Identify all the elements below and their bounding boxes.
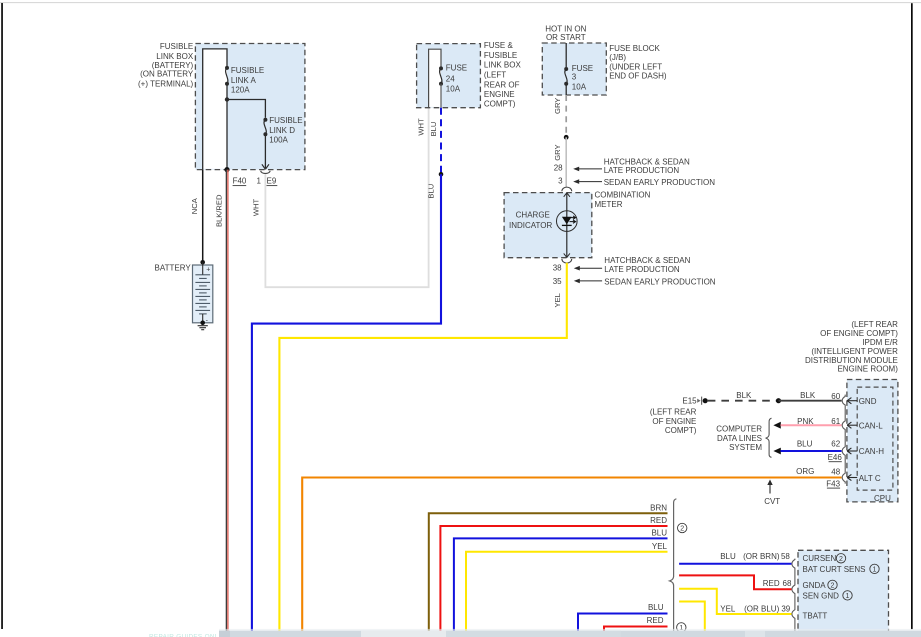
svg-text:62: 62 xyxy=(831,439,840,448)
svg-text:28: 28 xyxy=(554,164,563,173)
CVT arrow xyxy=(769,483,771,494)
svg-text:F40: F40 xyxy=(233,177,247,186)
wire YEL tbatt xyxy=(679,589,791,614)
fuse and fusible link box body xyxy=(417,44,481,108)
svg-text:BLK/RED: BLK/RED xyxy=(215,194,224,227)
wire BLU lower xyxy=(578,614,668,632)
brace bundle group xyxy=(670,499,677,631)
svg-text:(OR BLU): (OR BLU) xyxy=(744,605,779,614)
svg-text:ENGINE ROOM): ENGINE ROOM) xyxy=(837,365,898,374)
svg-text:(+) TERMINAL): (+) TERMINAL) xyxy=(138,80,194,89)
node battery + xyxy=(200,260,205,265)
svg-text:61: 61 xyxy=(831,417,840,426)
svg-text:CAN-H: CAN-H xyxy=(859,447,885,456)
svg-text:2: 2 xyxy=(831,583,835,590)
svg-text:IPDM E/R: IPDM E/R xyxy=(862,338,898,347)
svg-text:68: 68 xyxy=(783,579,792,588)
svg-text:LINK BOX: LINK BOX xyxy=(484,60,522,69)
svg-text:35: 35 xyxy=(553,277,562,286)
svg-text:FUSIBLE: FUSIBLE xyxy=(160,42,193,51)
svg-text:BLU: BLU xyxy=(797,439,813,448)
svg-text:24: 24 xyxy=(446,74,455,83)
svg-text:LINK BOX: LINK BOX xyxy=(156,52,194,61)
svg-text:YEL: YEL xyxy=(553,293,562,307)
svg-text:BATTERY: BATTERY xyxy=(155,264,192,273)
page top border xyxy=(0,2,921,4)
wire into fuse 3 xyxy=(565,43,567,67)
svg-text:LINK A: LINK A xyxy=(231,76,257,85)
svg-text:(BATTERY): (BATTERY) xyxy=(152,61,194,70)
node junction xyxy=(776,398,781,403)
hatchback arrow 1 xyxy=(573,167,579,172)
fusible link box body xyxy=(195,44,305,170)
node junction on link A leg xyxy=(225,97,229,101)
wire YEL xyxy=(466,552,668,631)
wire ORG xyxy=(302,478,841,632)
sedan arrow 2 xyxy=(574,279,580,284)
svg-text:YEL: YEL xyxy=(720,605,736,614)
wire BLK solid xyxy=(779,400,842,402)
svg-text:SEN GND: SEN GND xyxy=(803,592,840,601)
svg-text:E15: E15 xyxy=(682,396,697,405)
svg-text:FUSE: FUSE xyxy=(446,64,467,73)
svg-text:ORG: ORG xyxy=(796,467,814,476)
wire NCA xyxy=(202,170,204,263)
svg-text:LATE PRODUCTION: LATE PRODUCTION xyxy=(604,265,680,274)
svg-text:SYSTEM: SYSTEM xyxy=(729,443,762,452)
svg-text:+: + xyxy=(206,267,210,274)
svg-text:(LEFT REAR: (LEFT REAR xyxy=(650,408,697,417)
bottom gray bar xyxy=(219,629,921,631)
ipdm body xyxy=(847,380,898,502)
svg-text:60: 60 xyxy=(831,392,840,401)
svg-text:E9: E9 xyxy=(267,177,277,186)
svg-text:FUSE BLOCK: FUSE BLOCK xyxy=(609,44,660,53)
node E15 dot xyxy=(703,398,708,403)
pin 60 GND arrow xyxy=(847,400,857,402)
svg-text:BLK: BLK xyxy=(736,391,752,400)
wire WHT xyxy=(265,108,428,288)
charge indicator lamp wire xyxy=(566,193,568,258)
wire RED xyxy=(440,526,667,631)
wire GRY solid xyxy=(565,137,567,187)
svg-text:GNDA: GNDA xyxy=(803,581,827,590)
svg-text:39: 39 xyxy=(781,605,790,614)
svg-text:GRY: GRY xyxy=(553,98,562,114)
svg-text:(OR BRN): (OR BRN) xyxy=(743,552,780,561)
svg-text:FUSE &: FUSE & xyxy=(484,41,514,50)
svg-text:ENGINE: ENGINE xyxy=(484,90,515,99)
arrow into E9 xyxy=(262,164,269,169)
svg-text:58: 58 xyxy=(781,552,790,561)
svg-text:COMPT): COMPT) xyxy=(665,426,697,435)
svg-text:SEDAN EARLY PRODUCTION: SEDAN EARLY PRODUCTION xyxy=(604,277,716,286)
svg-text:CAN-L: CAN-L xyxy=(859,422,884,431)
wire BLU dashed xyxy=(440,108,442,174)
svg-text:REPAIR GUIDES ONLINE: REPAIR GUIDES ONLINE xyxy=(149,633,230,637)
svg-text:(LEFT: (LEFT xyxy=(484,70,506,79)
svg-text:FUSIBLE: FUSIBLE xyxy=(269,116,302,125)
svg-text:2: 2 xyxy=(839,556,843,563)
pin 62 CAN-H arrow xyxy=(847,450,857,452)
charge indicator LED xyxy=(557,211,578,232)
hatchback arrow 2 xyxy=(574,266,580,271)
wire RED gnda xyxy=(679,575,791,589)
svg-text:CVT: CVT xyxy=(764,497,780,506)
node on GRY wire xyxy=(564,135,569,140)
pin 61 CAN-L arrow xyxy=(847,424,857,426)
wire loop in fusible link box xyxy=(203,49,227,170)
svg-text:BLK: BLK xyxy=(800,391,816,400)
svg-text:38: 38 xyxy=(553,263,562,272)
svg-text:120A: 120A xyxy=(231,86,250,95)
svg-text:INDICATOR: INDICATOR xyxy=(509,221,552,230)
combination meter body xyxy=(504,193,592,258)
wire BLK dashed xyxy=(708,400,779,402)
svg-text:FUSIBLE: FUSIBLE xyxy=(484,51,517,60)
svg-text:LINK D: LINK D xyxy=(269,126,295,135)
page right border xyxy=(911,3,913,629)
svg-text:BRN: BRN xyxy=(650,503,667,512)
svg-text:F43: F43 xyxy=(826,479,840,488)
circled 1 bottom xyxy=(677,623,686,632)
svg-text:2: 2 xyxy=(680,526,684,533)
svg-text:10A: 10A xyxy=(572,82,587,91)
svg-text:OF ENGINE COMPT): OF ENGINE COMPT) xyxy=(820,329,898,338)
sensor pin cusp line xyxy=(792,559,795,637)
arrow PNK xyxy=(773,422,780,429)
svg-text:PNK: PNK xyxy=(797,417,814,426)
svg-text:SEDAN EARLY PRODUCTION: SEDAN EARLY PRODUCTION xyxy=(604,178,716,187)
svg-text:DISTRIBUTION MODULE: DISTRIBUTION MODULE xyxy=(805,356,898,365)
svg-text:1: 1 xyxy=(873,567,877,574)
connector arc bottom xyxy=(562,259,572,263)
wire GRY dashed xyxy=(565,95,567,137)
wire to fusible link D xyxy=(227,100,265,118)
wire BLU can-h xyxy=(781,450,842,452)
svg-text:(INTELLIGENT POWER: (INTELLIGENT POWER xyxy=(811,347,898,356)
node on BLU wire xyxy=(439,172,444,177)
svg-text:COMPUTER: COMPUTER xyxy=(716,424,762,433)
page left border xyxy=(1,3,3,629)
sedan arrow 1 xyxy=(573,179,579,184)
svg-text:BLU: BLU xyxy=(429,122,438,137)
wire PNK xyxy=(781,424,842,426)
node F40 junction dot xyxy=(224,167,229,172)
svg-text:HATCHBACK & SEDAN: HATCHBACK & SEDAN xyxy=(604,256,690,265)
svg-text:E46: E46 xyxy=(828,453,843,462)
svg-text:CURSEN: CURSEN xyxy=(803,554,837,563)
svg-text:NCA: NCA xyxy=(190,197,199,214)
connector arc E9 xyxy=(261,171,271,174)
svg-text:1: 1 xyxy=(256,177,261,186)
E15 connector symbol xyxy=(697,399,700,403)
fuse 24 xyxy=(439,66,443,70)
svg-text:RED: RED xyxy=(647,616,664,625)
svg-text:1: 1 xyxy=(846,593,850,600)
svg-text:GND: GND xyxy=(859,397,877,406)
svg-text:3: 3 xyxy=(572,73,577,82)
svg-text:FUSIBLE: FUSIBLE xyxy=(231,66,264,75)
wire BLU solid xyxy=(252,174,441,631)
wire RED lower xyxy=(604,627,668,632)
svg-text:BLU: BLU xyxy=(426,184,435,199)
circled 2 xyxy=(678,523,687,532)
svg-text:REAR OF: REAR OF xyxy=(484,80,520,89)
svg-text:(J/B): (J/B) xyxy=(609,53,626,62)
connector arc top xyxy=(562,187,572,191)
svg-text:YEL: YEL xyxy=(652,542,668,551)
cpu inner box xyxy=(857,387,893,490)
svg-text:GRY: GRY xyxy=(553,144,562,160)
brace computer data lines xyxy=(766,418,772,457)
svg-text:RED: RED xyxy=(650,516,667,525)
fusible link D xyxy=(263,118,267,122)
sensor body xyxy=(798,550,889,637)
svg-text:METER: METER xyxy=(595,200,623,209)
svg-text:CHARGE: CHARGE xyxy=(516,211,550,220)
fuse block body xyxy=(542,43,606,95)
svg-text:BLU: BLU xyxy=(648,603,664,612)
svg-text:(ON BATTERY: (ON BATTERY xyxy=(140,70,194,79)
wire YEL xyxy=(279,263,566,631)
svg-text:3: 3 xyxy=(558,176,563,185)
fusible link A xyxy=(225,66,229,70)
svg-text:CPU: CPU xyxy=(874,494,891,503)
svg-text:RED: RED xyxy=(763,579,780,588)
svg-text:COMPT): COMPT) xyxy=(484,99,516,108)
wire BLU cursen xyxy=(679,563,791,565)
svg-text:WHT: WHT xyxy=(251,198,260,216)
svg-text:TBATT: TBATT xyxy=(803,612,828,621)
wire YEL stub xyxy=(679,602,705,632)
svg-text:BLU: BLU xyxy=(720,552,736,561)
ipdm pin cusp line xyxy=(842,395,845,484)
svg-text:WHT: WHT xyxy=(416,118,425,136)
svg-text:BLU: BLU xyxy=(651,528,667,537)
svg-text:DATA LINES: DATA LINES xyxy=(717,434,762,443)
svg-text:(LEFT REAR: (LEFT REAR xyxy=(851,320,898,329)
svg-text:END OF DASH): END OF DASH) xyxy=(609,72,667,81)
fuse 3 xyxy=(564,67,568,71)
svg-text:(UNDER LEFT: (UNDER LEFT xyxy=(609,62,662,71)
svg-text:HATCHBACK & SEDAN: HATCHBACK & SEDAN xyxy=(604,157,690,166)
pin 48 ALT C arrow xyxy=(847,477,857,479)
svg-text:OF ENGINE: OF ENGINE xyxy=(652,417,696,426)
ground xyxy=(198,326,208,330)
arrow BLU xyxy=(773,448,780,455)
svg-text:10A: 10A xyxy=(446,84,461,93)
wire BLU xyxy=(454,538,668,631)
wire BRN xyxy=(429,513,668,631)
svg-text:LATE PRODUCTION: LATE PRODUCTION xyxy=(604,166,680,175)
wire BLK/RED xyxy=(225,170,227,631)
svg-text:OR START: OR START xyxy=(546,33,586,42)
svg-text:ALT C: ALT C xyxy=(859,474,881,483)
svg-text:COMBINATION: COMBINATION xyxy=(595,191,651,200)
svg-text:100A: 100A xyxy=(269,136,288,145)
svg-text:BAT CURT SENS: BAT CURT SENS xyxy=(803,565,866,574)
svg-text:48: 48 xyxy=(831,467,840,476)
